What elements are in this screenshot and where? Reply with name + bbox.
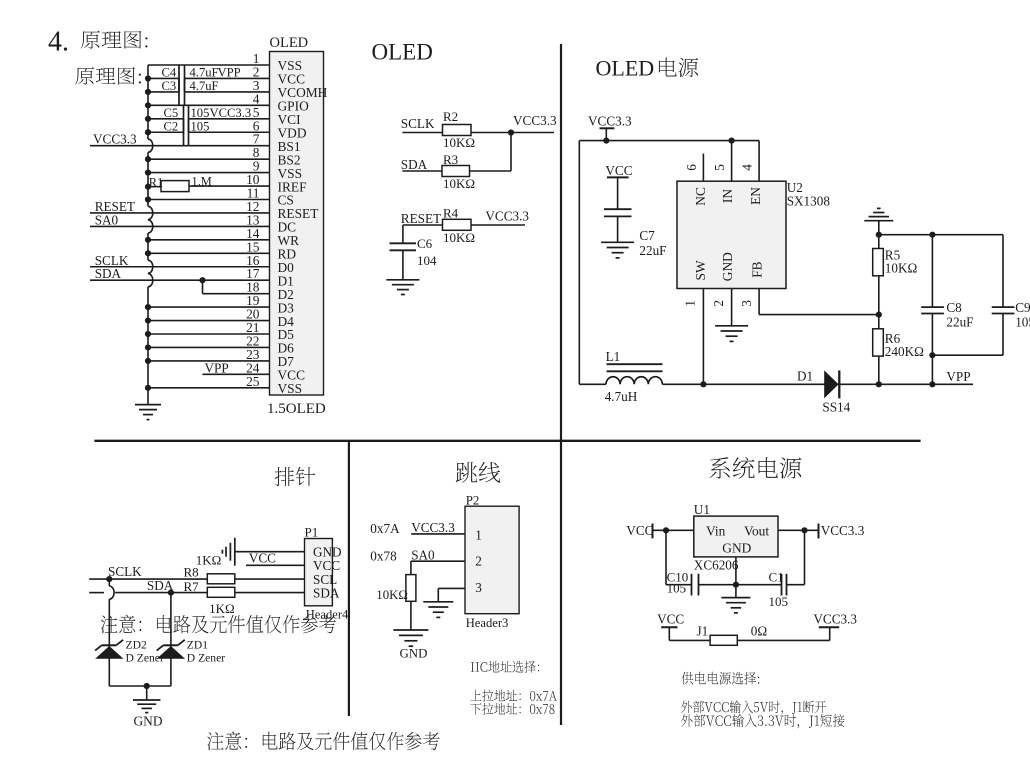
svg-text:105: 105 <box>769 594 789 609</box>
svg-text:VCC: VCC <box>657 612 684 627</box>
svg-text:SDA: SDA <box>313 585 340 600</box>
svg-text:OLED: OLED <box>270 35 309 51</box>
svg-text:SW: SW <box>693 260 708 280</box>
svg-text:C3: C3 <box>162 79 177 93</box>
svg-text:L1: L1 <box>606 349 621 364</box>
svg-text:R3: R3 <box>443 152 458 167</box>
svg-text:OLED: OLED <box>372 40 433 65</box>
svg-text:104: 104 <box>417 253 437 268</box>
svg-text:3: 3 <box>475 580 482 595</box>
svg-text:D Zener: D Zener <box>126 651 164 664</box>
svg-text:1.5OLED: 1.5OLED <box>267 401 326 417</box>
svg-text:Vout: Vout <box>744 524 769 539</box>
svg-text:1: 1 <box>475 528 482 543</box>
svg-text:10KΩ: 10KΩ <box>443 230 475 245</box>
svg-text:RESET: RESET <box>401 211 441 226</box>
svg-text:0Ω: 0Ω <box>751 623 768 638</box>
svg-text:SA0: SA0 <box>411 548 435 563</box>
svg-text:VCC3.3: VCC3.3 <box>210 106 252 120</box>
svg-text:SCLK: SCLK <box>108 564 142 579</box>
svg-text:VCC: VCC <box>626 523 653 538</box>
svg-text:R2: R2 <box>443 109 458 124</box>
svg-text:VPP: VPP <box>218 66 241 80</box>
svg-text:P2: P2 <box>466 493 480 508</box>
svg-text:4.7uF: 4.7uF <box>190 66 219 80</box>
svg-text:105: 105 <box>1015 315 1030 330</box>
svg-text:VCC3.3: VCC3.3 <box>513 113 557 128</box>
svg-text:10KΩ: 10KΩ <box>885 260 918 275</box>
svg-text:SDA: SDA <box>401 157 428 172</box>
svg-text:VCC: VCC <box>605 163 632 178</box>
svg-text:VCC: VCC <box>249 550 276 565</box>
svg-text:4.7uF: 4.7uF <box>190 79 219 93</box>
svg-text:VCC: VCC <box>313 558 340 573</box>
svg-text:4: 4 <box>740 164 755 171</box>
svg-text:C7: C7 <box>639 228 655 243</box>
svg-text:4.: 4. <box>48 27 69 58</box>
svg-text:2: 2 <box>711 300 726 307</box>
svg-text:C9: C9 <box>1015 300 1030 315</box>
svg-text:105: 105 <box>191 119 210 133</box>
svg-text:XC6206: XC6206 <box>694 558 739 573</box>
svg-text:C6: C6 <box>417 236 433 251</box>
svg-text:R4: R4 <box>443 206 459 221</box>
svg-text:C8: C8 <box>946 300 962 315</box>
svg-text:VCC3.3: VCC3.3 <box>93 132 137 147</box>
svg-text:Vin: Vin <box>706 524 726 539</box>
svg-text:10KΩ: 10KΩ <box>443 135 475 150</box>
svg-text:VCC3.3: VCC3.3 <box>821 523 865 538</box>
svg-text:ZD1: ZD1 <box>187 639 208 652</box>
svg-text:10KΩ: 10KΩ <box>376 588 408 602</box>
svg-text:22uF: 22uF <box>639 243 666 258</box>
svg-text:OLED: OLED <box>596 56 655 81</box>
svg-text:C5: C5 <box>164 106 179 120</box>
svg-text:R7: R7 <box>184 579 200 594</box>
svg-text:1.M: 1.M <box>192 174 212 188</box>
svg-text:GND: GND <box>400 646 428 660</box>
svg-text:J1: J1 <box>697 623 709 638</box>
svg-text:NC: NC <box>693 187 708 206</box>
svg-text:105: 105 <box>191 106 210 120</box>
svg-text:D1: D1 <box>797 369 813 384</box>
svg-text:0x7A: 0x7A <box>370 521 400 536</box>
svg-text:VCC3.3: VCC3.3 <box>813 612 857 627</box>
svg-text:IN: IN <box>720 189 735 203</box>
svg-text:105: 105 <box>667 581 687 596</box>
svg-text:GND: GND <box>722 540 751 555</box>
svg-text:1KΩ: 1KΩ <box>209 601 235 616</box>
svg-text:GND: GND <box>720 252 735 281</box>
svg-text:VCC3.3: VCC3.3 <box>485 209 529 224</box>
svg-text:C4: C4 <box>162 66 177 80</box>
svg-text:VSS: VSS <box>278 381 303 396</box>
svg-text:VPP: VPP <box>946 369 970 384</box>
svg-text:10KΩ: 10KΩ <box>443 176 475 191</box>
svg-text:GND: GND <box>134 713 163 728</box>
svg-text:4.7uH: 4.7uH <box>605 389 638 404</box>
svg-text:3: 3 <box>739 300 754 307</box>
svg-text:SS14: SS14 <box>822 400 850 415</box>
svg-text:C1: C1 <box>769 569 784 584</box>
svg-text:Header3: Header3 <box>466 616 509 630</box>
svg-text:VCC3.3: VCC3.3 <box>411 520 455 535</box>
svg-text:2: 2 <box>475 554 482 569</box>
svg-text:5: 5 <box>712 164 727 171</box>
svg-text:C2: C2 <box>164 119 179 133</box>
svg-text:P1: P1 <box>305 525 319 540</box>
svg-text:1: 1 <box>683 300 698 307</box>
svg-text:SCLK: SCLK <box>401 116 435 131</box>
svg-text:U1: U1 <box>694 502 710 517</box>
svg-text:VCC3.3: VCC3.3 <box>588 114 632 129</box>
svg-text:EN: EN <box>748 187 763 205</box>
svg-text:SX1308: SX1308 <box>787 194 831 209</box>
svg-text:FB: FB <box>749 261 764 277</box>
svg-text:1KΩ: 1KΩ <box>196 553 222 568</box>
svg-text:6: 6 <box>684 164 699 171</box>
svg-text:D Zener: D Zener <box>187 651 225 664</box>
svg-text:0x78: 0x78 <box>370 548 397 563</box>
svg-text:VPP: VPP <box>205 360 229 375</box>
svg-text:SA0: SA0 <box>95 212 119 227</box>
svg-text:22uF: 22uF <box>946 315 973 330</box>
svg-text:SDA: SDA <box>95 266 122 281</box>
svg-text:240KΩ: 240KΩ <box>885 344 924 359</box>
svg-text:ZD2: ZD2 <box>126 639 147 652</box>
svg-text:25: 25 <box>246 374 260 389</box>
